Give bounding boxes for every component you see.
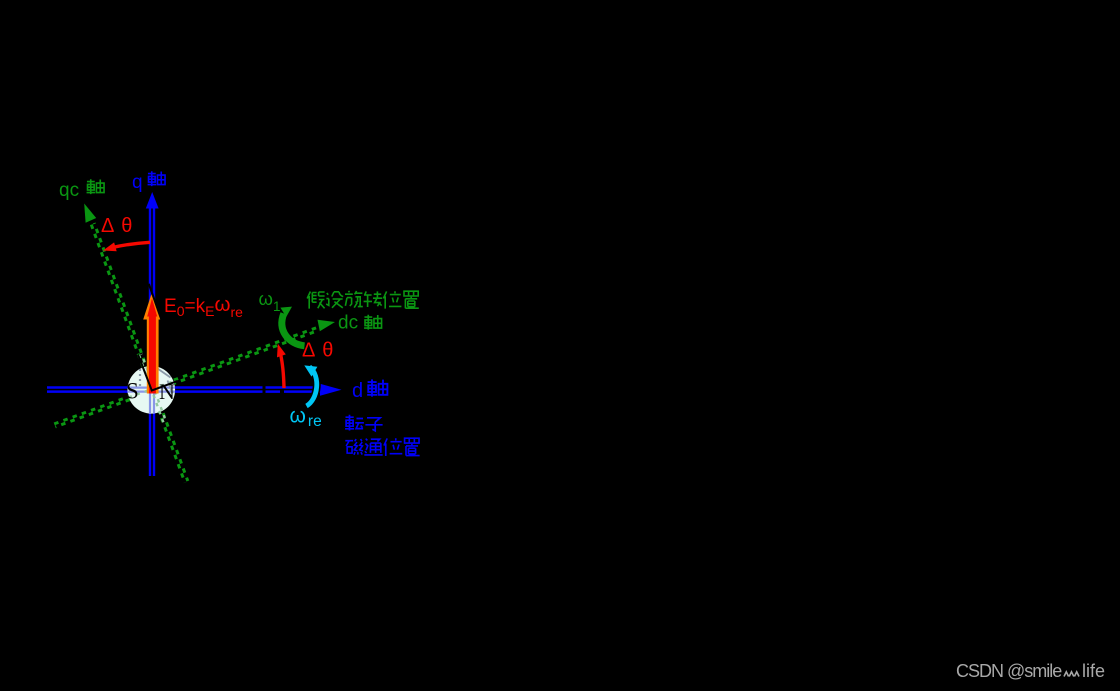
svg-text:CSDN @smile: CSDN @smile — [956, 661, 1062, 681]
label: flux position — [345, 438, 419, 456]
d-axis arrowhead — [320, 384, 342, 396]
faint dc dashes inside circle — [129, 381, 175, 398]
faint d-axis inside circle — [128, 367, 175, 413]
qc-axis arrowhead — [84, 204, 96, 223]
cyan omega_re rotation arrow — [307, 367, 317, 406]
svg-text:S: S — [126, 379, 139, 404]
q-axis double blue line — [150, 208, 154, 476]
svg-text:Δ θ: Δ θ — [101, 215, 134, 237]
svg-text:N: N — [159, 379, 175, 404]
svg-text:Δ θ: Δ θ — [302, 340, 335, 362]
rotor circle at origin — [128, 366, 176, 414]
gray sketch marks inside circle — [140, 369, 173, 394]
svg-text:qc: qc — [59, 180, 79, 201]
black diagonal over E0 arrowhead — [149, 284, 162, 321]
d-axis double blue line — [47, 388, 321, 392]
q-axis arrowhead — [146, 192, 159, 209]
qc-axis green dashed line — [91, 223, 188, 483]
dc-axis arrowhead — [318, 320, 336, 332]
svg-text:d: d — [352, 380, 363, 402]
faint qc dashes inside circle — [139, 354, 167, 424]
green omega1 rotation arrow — [282, 314, 305, 346]
svg-text:life: life — [1082, 661, 1105, 681]
label: assumed rotation position — [307, 291, 419, 309]
svg-text:q: q — [132, 172, 143, 193]
dc-axis green dashed line — [54, 327, 319, 427]
svg-text:dc: dc — [338, 313, 358, 334]
label: rotor — [345, 415, 383, 431]
red curved arrow (lower, to dc axis) — [280, 351, 284, 388]
E0 EMF arrow (red with orange border) — [143, 292, 161, 393]
red delta-theta arrow (top) — [112, 242, 150, 247]
rotor needle black V — [138, 355, 178, 391]
